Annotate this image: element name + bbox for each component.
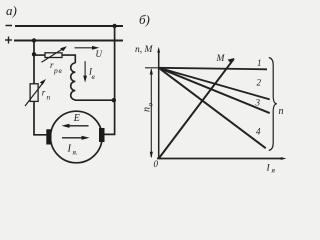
arrow of rheostat r_п [25, 82, 44, 107]
arrow E (emf, pointing left) [66, 125, 89, 127]
label I_я. [67, 144, 78, 157]
svg-text:n: n [279, 106, 284, 117]
svg-text:r: r [42, 87, 46, 97]
positive bus wire [14, 40, 123, 42]
x-axis [157, 158, 283, 160]
svg-text:3: 3 [255, 97, 261, 107]
svg-text:n: n [142, 107, 153, 112]
arrow of rheostat r_рв [42, 48, 65, 63]
value label r_рв [50, 60, 63, 75]
wire to field rheostat [34, 54, 45, 56]
node: branch junction to field rheostat [32, 52, 36, 56]
brace grouping n lines [269, 58, 277, 151]
characteristic line 3 [159, 68, 270, 113]
wire from winding bottom to right vertical [75, 99, 114, 101]
svg-text:1: 1 [257, 58, 262, 68]
characteristic line 4 [159, 68, 266, 148]
characteristic line 2 [159, 68, 270, 100]
brush left [46, 129, 51, 144]
motor M1 armature circle [51, 111, 103, 163]
resistor r_п (starting rheostat) [30, 84, 38, 102]
label I_я (x axis) [266, 163, 276, 174]
svg-text:n, M: n, M [135, 45, 154, 55]
svg-text:а): а) [6, 3, 17, 18]
node: junction dot on positive bus [32, 38, 36, 42]
svg-text:я.: я. [72, 147, 78, 156]
plus terminal sign [5, 37, 12, 44]
svg-text:рв: рв [53, 66, 63, 75]
wire left vertical [34, 41, 46, 135]
inductor field winding (4 arcs) [71, 63, 76, 100]
value label r_п [42, 87, 51, 101]
svg-text:2: 2 [257, 77, 262, 87]
svg-text:E: E [73, 113, 80, 124]
node: junction of field winding bottom [112, 98, 116, 102]
barb at M line top [228, 58, 235, 63]
y-axis [158, 50, 160, 159]
node: junction dot on negative bus [112, 24, 116, 28]
arrow I_я (armature current, pointing right) [62, 137, 85, 139]
resistor r_рв (field rheostat) [45, 53, 62, 58]
svg-text:о: о [145, 103, 154, 107]
svg-text:4: 4 [256, 126, 261, 136]
svg-text:M: M [216, 54, 226, 64]
dimension arrow n0 [150, 70, 152, 158]
minus terminal sign [6, 25, 13, 27]
wire right vertical [105, 26, 115, 134]
brush right [99, 128, 105, 142]
tick n0 level [145, 67, 159, 69]
negative bus wire [15, 25, 123, 27]
label I_в [88, 66, 96, 81]
svg-text:я: я [271, 165, 276, 174]
svg-text:0: 0 [154, 159, 159, 169]
wire from rheostat to field winding [62, 55, 75, 63]
svg-text:U: U [96, 49, 103, 59]
arrow I_в (field current) [84, 61, 86, 78]
svg-text:б): б) [139, 12, 150, 27]
svg-text:I: I [67, 144, 72, 155]
svg-text:п: п [47, 92, 51, 101]
characteristic line 1 [159, 68, 267, 70]
torque line M [159, 59, 234, 159]
arrow U (voltage) [75, 47, 96, 49]
label n0 (rotated) [142, 103, 155, 113]
